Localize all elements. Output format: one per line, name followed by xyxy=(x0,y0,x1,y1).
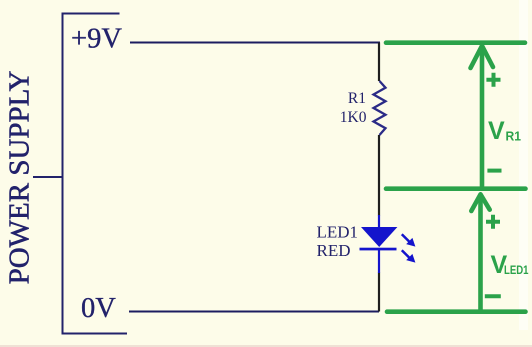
label POWER SUPPLY xyxy=(3,71,35,285)
node 0V xyxy=(81,293,116,324)
wire +9V rail xyxy=(130,42,380,44)
resistor R1 xyxy=(374,81,386,135)
LED1 cathode lead xyxy=(378,250,380,274)
plus sign VLED1 xyxy=(486,215,500,229)
wire 0V rail xyxy=(129,311,379,313)
svg-text:POWER SUPPLY: POWER SUPPLY xyxy=(3,71,35,285)
svg-text:LED1: LED1 xyxy=(504,263,529,277)
label LED1 xyxy=(317,223,359,242)
value label 1K0 xyxy=(340,109,367,126)
wire vertical middle segment xyxy=(378,135,380,216)
svg-text:0V: 0V xyxy=(81,293,116,324)
wire vertical bottom segment xyxy=(378,273,380,312)
LED1 triangle xyxy=(361,227,397,247)
green bar middle xyxy=(386,186,526,191)
node +9V xyxy=(71,24,122,55)
LED1 emission arrow 1 xyxy=(402,234,416,246)
svg-text:RED: RED xyxy=(317,241,351,260)
svg-text:LED1: LED1 xyxy=(317,223,359,242)
wire vertical top segment xyxy=(378,43,380,82)
voltage arrow VLED1 xyxy=(471,194,489,310)
green bar top xyxy=(386,40,525,45)
plus sign VR1 xyxy=(486,73,500,87)
bracket middle tick xyxy=(33,176,63,178)
voltage arrow VR1 xyxy=(471,46,494,186)
svg-text:+9V: +9V xyxy=(71,24,122,55)
LED1 emission arrow 2 xyxy=(402,250,416,262)
svg-text:R1: R1 xyxy=(506,130,522,144)
green bar bottom xyxy=(387,309,526,314)
label VLED1 xyxy=(491,251,529,279)
power supply bracket xyxy=(63,14,128,334)
label R1 xyxy=(348,90,366,107)
label VR1 xyxy=(488,117,521,145)
svg-text:1K0: 1K0 xyxy=(340,109,367,126)
svg-text:V: V xyxy=(488,117,505,145)
minus sign VLED1 xyxy=(485,294,501,298)
bottom window edge strip xyxy=(0,345,532,347)
label RED xyxy=(317,241,351,260)
window edge highlight strip xyxy=(519,0,528,330)
LED1 anode lead xyxy=(378,215,380,228)
LED1 cathode bar xyxy=(360,248,397,251)
minus sign VR1 xyxy=(487,169,501,173)
svg-text:R1: R1 xyxy=(348,90,366,107)
